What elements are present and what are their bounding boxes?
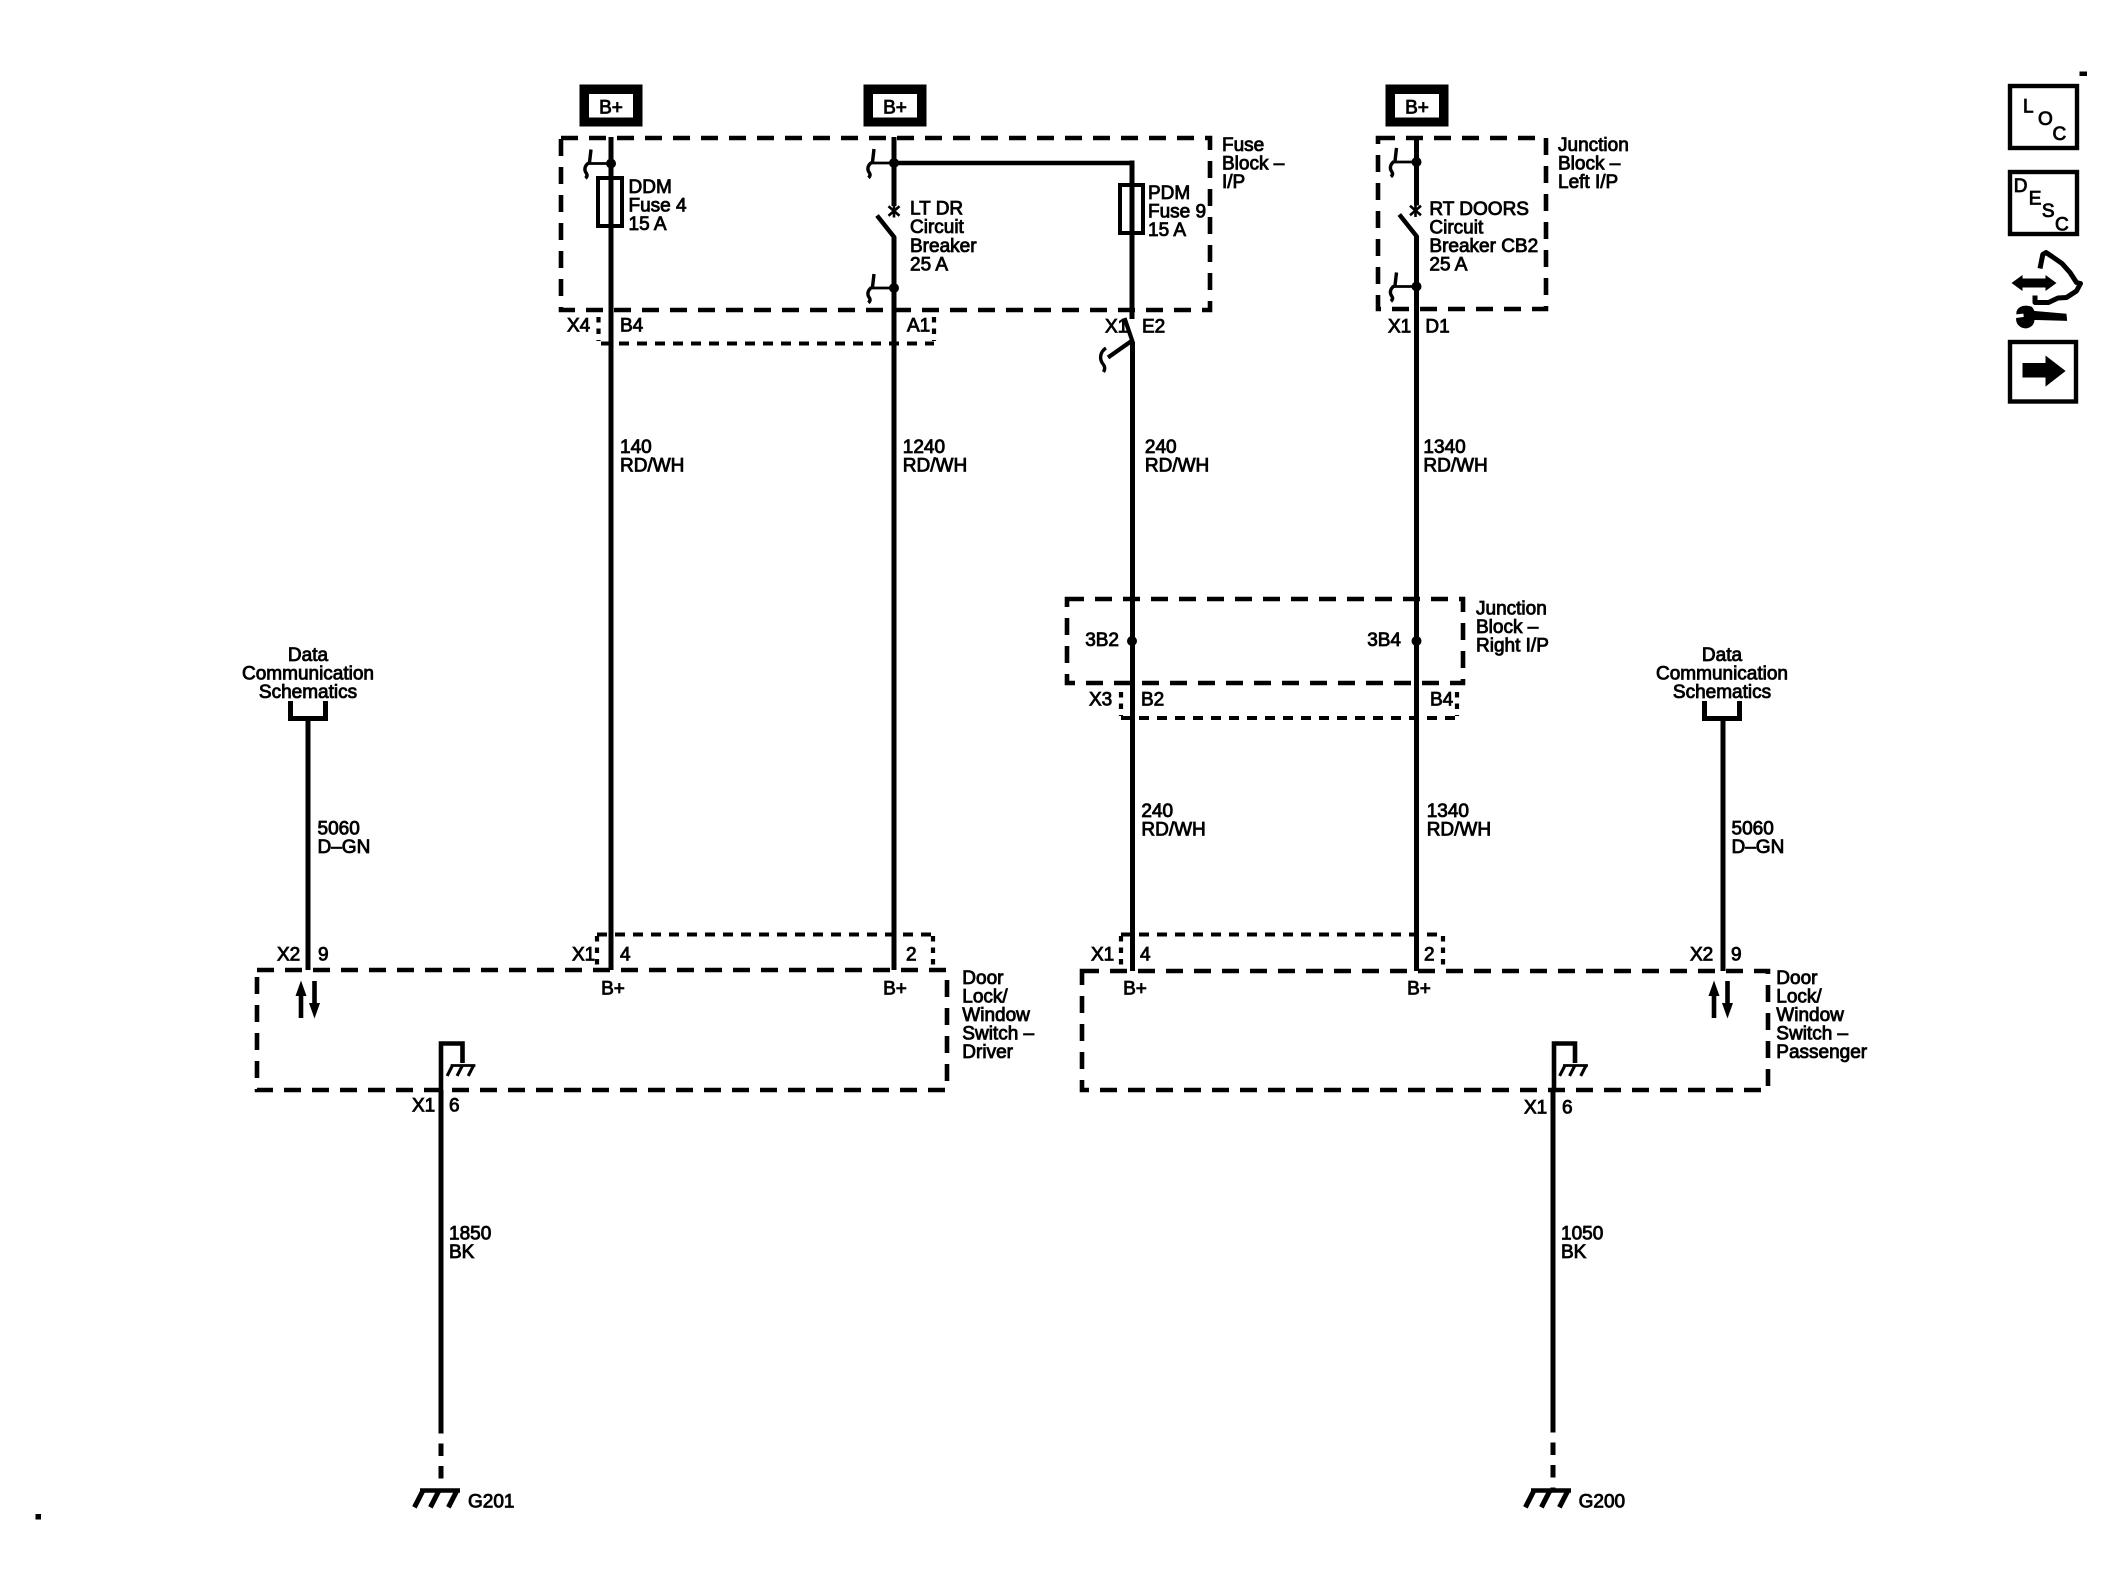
- svg-text:9: 9: [318, 945, 329, 966]
- svg-text:X2: X2: [277, 945, 300, 966]
- svg-text:RD/WH: RD/WH: [1423, 455, 1487, 476]
- svg-text:6: 6: [449, 1096, 460, 1117]
- svg-text:9: 9: [1731, 945, 1742, 966]
- svg-text:X1: X1: [412, 1096, 435, 1117]
- svg-text:RD/WH: RD/WH: [1427, 820, 1491, 841]
- svg-text:O: O: [2038, 109, 2053, 130]
- svg-text:D–GN: D–GN: [318, 837, 371, 858]
- svg-text:I/P: I/P: [1222, 172, 1245, 193]
- svg-text:6: 6: [1562, 1098, 1573, 1119]
- svg-text:B+: B+: [1405, 98, 1429, 119]
- svg-text:X1: X1: [1091, 945, 1114, 966]
- svg-text:15 A: 15 A: [1148, 220, 1186, 241]
- svg-text:RD/WH: RD/WH: [903, 455, 967, 476]
- svg-text:L: L: [2023, 97, 2034, 118]
- svg-text:G200: G200: [1579, 1492, 1625, 1513]
- svg-text:4: 4: [620, 945, 631, 966]
- svg-text:D–GN: D–GN: [1732, 837, 1785, 858]
- svg-text:Schematics: Schematics: [259, 682, 357, 703]
- svg-text:X1: X1: [1105, 317, 1128, 338]
- svg-text:RD/WH: RD/WH: [620, 455, 684, 476]
- svg-text:RD/WH: RD/WH: [1145, 455, 1209, 476]
- svg-text:15 A: 15 A: [629, 214, 667, 235]
- svg-text:Right I/P: Right I/P: [1476, 636, 1549, 657]
- svg-text:X1: X1: [572, 945, 595, 966]
- svg-text:Driver: Driver: [962, 1042, 1013, 1063]
- svg-text:Left I/P: Left I/P: [1558, 172, 1618, 193]
- svg-text:E: E: [2029, 189, 2042, 210]
- svg-text:RD/WH: RD/WH: [1141, 820, 1205, 841]
- svg-text:3B4: 3B4: [1367, 630, 1401, 651]
- svg-text:C: C: [2055, 215, 2069, 236]
- svg-text:Schematics: Schematics: [1673, 682, 1771, 703]
- svg-text:X1: X1: [1524, 1098, 1547, 1119]
- svg-text:E2: E2: [1142, 317, 1165, 338]
- svg-text:B+: B+: [601, 979, 625, 1000]
- svg-text:A1: A1: [907, 316, 930, 337]
- svg-text:25 A: 25 A: [1429, 255, 1467, 276]
- svg-text:B+: B+: [1123, 979, 1147, 1000]
- svg-text:B2: B2: [1141, 690, 1164, 711]
- svg-text:4: 4: [1140, 945, 1151, 966]
- svg-text:D: D: [2014, 176, 2028, 197]
- svg-text:B+: B+: [883, 98, 907, 119]
- svg-text:X2: X2: [1690, 945, 1713, 966]
- svg-text:3B2: 3B2: [1085, 630, 1119, 651]
- svg-text:X3: X3: [1089, 690, 1112, 711]
- svg-text:2: 2: [1424, 945, 1435, 966]
- svg-text:C: C: [2053, 124, 2067, 145]
- svg-text:B+: B+: [1407, 979, 1431, 1000]
- svg-text:BK: BK: [449, 1242, 475, 1263]
- svg-text:Passenger: Passenger: [1776, 1042, 1868, 1063]
- svg-text:B4: B4: [620, 316, 644, 337]
- svg-text:B+: B+: [883, 979, 907, 1000]
- svg-text:X1: X1: [1388, 317, 1411, 338]
- svg-text:G201: G201: [468, 1492, 514, 1513]
- svg-text:BK: BK: [1561, 1242, 1587, 1263]
- svg-text:X4: X4: [567, 316, 591, 337]
- svg-text:2: 2: [906, 945, 917, 966]
- svg-text:S: S: [2042, 201, 2055, 222]
- svg-text:D1: D1: [1425, 317, 1449, 338]
- svg-text:B+: B+: [599, 98, 623, 119]
- svg-text:25 A: 25 A: [910, 254, 948, 275]
- svg-text:B4: B4: [1430, 690, 1454, 711]
